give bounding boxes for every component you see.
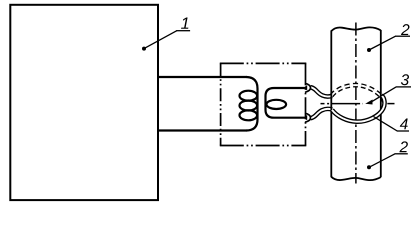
leader line for label 1 bbox=[142, 47, 146, 51]
connector bottom bbox=[303, 115, 307, 120]
flexible lead bottom bbox=[310, 109, 332, 118]
generator unit box 1 bbox=[10, 5, 158, 200]
bar right edge bbox=[380, 30, 382, 177]
hidden upper half of clamp loop (dashed, behind bar) bbox=[332, 85, 385, 105]
bar centerline bbox=[355, 23, 357, 184]
bar bottom break line bbox=[331, 177, 381, 180]
label 1 bbox=[181, 17, 188, 28]
label 2 bottom bbox=[399, 141, 407, 152]
pickup loop twist bbox=[267, 100, 287, 109]
leader line and arrow for label 3 bbox=[365, 100, 372, 105]
label 4 bbox=[400, 119, 408, 130]
label 3 bbox=[401, 74, 409, 85]
inductor L1 loop 3 bbox=[240, 110, 258, 120]
flexible lead top bbox=[310, 87, 332, 96]
enclosure boundary (dash-dot-dot box) bbox=[220, 62, 306, 64]
visible lower half of clamp loop (solid, in front) bbox=[332, 96, 385, 122]
wire bottom (coil to unit 1) bbox=[158, 129, 247, 131]
label 2 top bbox=[401, 24, 409, 35]
bar left edge bbox=[330, 31, 332, 178]
leader line for label 4 bbox=[374, 117, 398, 132]
loop axis centerline bbox=[321, 103, 364, 105]
inductor L1 loop 2 bbox=[240, 101, 258, 111]
leader line for label 2 top bbox=[367, 48, 371, 52]
leader line for label 2 bottom bbox=[367, 165, 371, 169]
connector top bbox=[303, 85, 307, 90]
inductor L1 body bbox=[247, 77, 258, 131]
bar top break line bbox=[331, 27, 381, 31]
pickup hairpin loop bbox=[266, 88, 305, 118]
wire top (unit 1 to coil) bbox=[158, 76, 247, 78]
inductor L1 loop 1 bbox=[240, 91, 258, 101]
